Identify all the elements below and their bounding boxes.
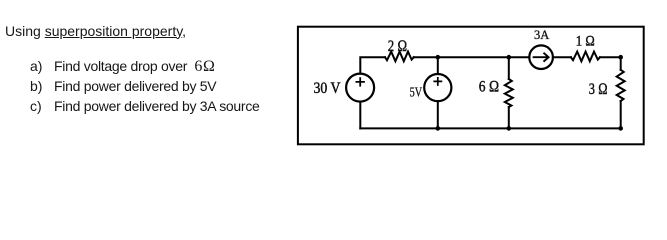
wire bottom rail: [360, 127, 620, 129]
resistor 3-ohm zigzag (vertical): [617, 70, 625, 101]
node bottom of 3-ohm: [618, 126, 623, 131]
resistor 6-ohm zigzag (vertical): [505, 79, 513, 107]
node bottom of 6-ohm: [507, 126, 512, 131]
current source 3A circle: [529, 45, 553, 69]
wire top rail from 2-ohm to 3A source: [414, 56, 530, 58]
problem statement heading: [5, 24, 186, 38]
wire top rail from 1-ohm to right node: [600, 56, 621, 58]
item a: [30, 59, 42, 73]
border frame of circuit figure: [298, 27, 644, 145]
plus sign of 5V source: [434, 78, 441, 85]
svg-text:3A: 3A: [534, 28, 549, 42]
svg-text:3 Ω: 3 Ω: [589, 81, 608, 98]
wire top rail from 3A source to 1-ohm: [553, 56, 571, 58]
arrow of 3A current source: [534, 53, 549, 61]
item c: [30, 99, 42, 113]
plus sign of 30V source: [356, 78, 364, 86]
node top of 5V: [436, 55, 441, 60]
wire 3-ohm bottom lead: [620, 101, 622, 128]
wire 30V source bottom lead: [359, 102, 361, 129]
node top of 3-ohm: [618, 55, 623, 60]
wire 3-ohm top lead: [620, 57, 622, 70]
voltage source 30V circle: [346, 74, 374, 102]
svg-text:5V: 5V: [410, 85, 423, 100]
svg-text:30 V: 30 V: [314, 80, 342, 97]
wire top-left corner from 30V up to top rail and right to 2-ohm: [360, 57, 385, 73]
voltage source 5V circle: [424, 74, 451, 101]
resistor 1-ohm zigzag: [571, 52, 600, 62]
item b: [30, 79, 42, 93]
wire 5V source top lead: [437, 57, 439, 74]
node bottom of 5V: [436, 126, 441, 131]
svg-text:6 Ω: 6 Ω: [479, 78, 500, 95]
wire 6-ohm top lead: [508, 57, 510, 79]
resistor 2-ohm zigzag: [385, 52, 414, 62]
svg-text:2 Ω: 2 Ω: [388, 38, 408, 55]
wire 5V source bottom lead: [437, 101, 439, 128]
wire 6-ohm bottom lead: [508, 107, 510, 128]
svg-text:1 Ω: 1 Ω: [576, 34, 595, 50]
node top of 6-ohm: [507, 55, 512, 60]
